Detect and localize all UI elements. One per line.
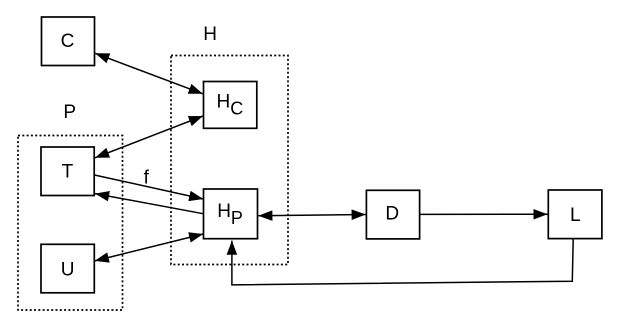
svg-text:D: D xyxy=(385,203,399,224)
box L xyxy=(548,190,602,239)
svg-text:T: T xyxy=(62,162,74,183)
box T xyxy=(41,147,94,196)
svg-text:U: U xyxy=(61,259,75,280)
wire D-L xyxy=(420,213,548,215)
svg-text:P: P xyxy=(63,102,76,123)
label P xyxy=(63,102,76,123)
svg-text:f: f xyxy=(144,167,150,188)
box HP xyxy=(204,189,258,239)
wire HP-D (double arrow) xyxy=(258,215,366,216)
wire L feedback to HP bottom xyxy=(232,239,573,285)
dashed group box P xyxy=(18,136,123,311)
dashed group box H xyxy=(171,56,288,265)
box C xyxy=(42,17,95,66)
label f xyxy=(144,167,150,188)
box U xyxy=(41,244,94,292)
svg-text:H: H xyxy=(203,24,217,45)
svg-text:C: C xyxy=(61,31,75,52)
label H xyxy=(203,24,217,45)
wire HP-T xyxy=(95,194,204,214)
wire C-HC (double arrow) xyxy=(95,53,203,94)
wire T-HP labelled f xyxy=(95,175,204,199)
wire T-HC (double arrow) xyxy=(95,116,203,158)
svg-text:L: L xyxy=(570,205,581,226)
box HC xyxy=(204,82,257,129)
wire U-HP (double arrow) xyxy=(95,234,204,261)
box D xyxy=(366,190,419,239)
